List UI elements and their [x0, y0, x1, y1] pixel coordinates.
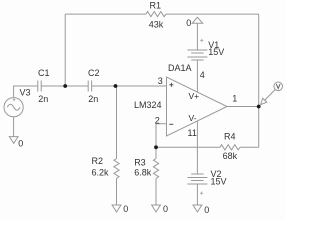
- svg-text:0: 0: [123, 204, 128, 214]
- svg-text:V-: V-: [189, 113, 197, 123]
- svg-text:3: 3: [158, 76, 163, 86]
- svg-text:C2: C2: [88, 68, 100, 78]
- svg-text:DA1A: DA1A: [168, 63, 192, 73]
- svg-text:1: 1: [232, 94, 237, 104]
- svg-text:15V: 15V: [208, 47, 224, 57]
- svg-text:2n: 2n: [38, 94, 48, 104]
- svg-text:11: 11: [188, 128, 197, 138]
- svg-text:2: 2: [155, 116, 160, 126]
- svg-text:6.2k: 6.2k: [92, 167, 110, 177]
- svg-text:15V: 15V: [211, 177, 227, 187]
- svg-text:0: 0: [18, 139, 23, 149]
- svg-text:0: 0: [163, 204, 168, 214]
- svg-text:4: 4: [200, 70, 205, 80]
- svg-text:43k: 43k: [149, 19, 164, 29]
- svg-text:0: 0: [204, 205, 209, 215]
- svg-text:V+: V+: [189, 91, 200, 101]
- svg-text:R4: R4: [224, 132, 236, 142]
- svg-text:C1: C1: [38, 68, 50, 78]
- svg-text:LM324: LM324: [134, 100, 162, 110]
- svg-text:V3: V3: [20, 88, 31, 98]
- svg-text:6.8k: 6.8k: [134, 167, 152, 177]
- svg-text:68k: 68k: [223, 151, 238, 161]
- svg-text:0: 0: [186, 18, 191, 28]
- svg-text:R2: R2: [92, 156, 104, 166]
- svg-text:R3: R3: [134, 158, 146, 168]
- svg-text:2n: 2n: [88, 94, 98, 104]
- svg-text:R1: R1: [150, 0, 162, 10]
